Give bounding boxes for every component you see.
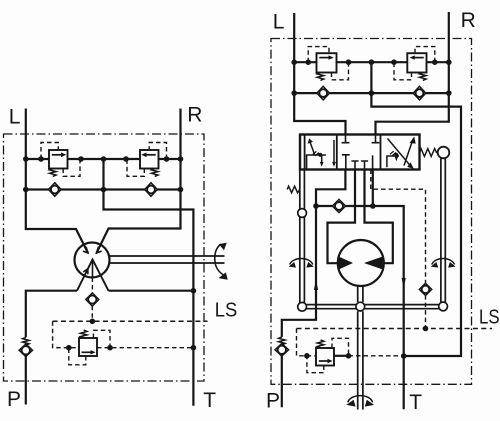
bottom relief valve arrow — [319, 360, 328, 362]
junction dots right unit — [291, 59, 451, 358]
steering metering unit circle — [75, 243, 110, 278]
P line check valve — [19, 344, 32, 357]
relief valve V1 pilot lines — [41, 143, 80, 177]
rotation arrow left column — [290, 259, 313, 265]
relief valve V4 spring — [420, 73, 427, 81]
bottom relief output to T junction — [334, 355, 349, 357]
relief valve V2 arrow — [146, 154, 156, 156]
LS dashed drop to bottom relief — [297, 329, 317, 356]
motor shaft double line — [358, 286, 363, 409]
control valve body — [300, 135, 420, 170]
mid check valve C5 — [332, 199, 345, 212]
P line check valve right unit — [275, 344, 289, 357]
bottom relief valve spring — [317, 340, 324, 348]
wire R port to valve — [376, 12, 449, 135]
wire relief gallery line — [26, 158, 181, 160]
pilot dashed check to LS line — [91, 306, 93, 322]
steering rotation arrow arc — [215, 244, 226, 276]
metering unit rotor V line — [77, 260, 109, 291]
valve right section internals — [387, 156, 399, 167]
wire L port to steering circle top-left — [26, 109, 88, 254]
relief valve V1 body — [49, 150, 68, 169]
LS pilot dashed to LS line — [425, 295, 427, 328]
relief valve V1 arrow — [52, 154, 62, 156]
wire L port to valve — [294, 13, 345, 135]
valve top closed ports — [342, 135, 380, 143]
wire tank gallery and crossover to T — [371, 62, 461, 356]
valve bottom closed ports — [342, 155, 373, 170]
check valve C3 — [317, 86, 330, 100]
steering shaft double line — [110, 256, 225, 263]
enclosure box left unit (dash-dot border) — [4, 134, 205, 381]
check valve C1 — [49, 183, 62, 197]
pilot relief valve pilot lines — [69, 330, 110, 365]
metering unit internal vertical — [92, 260, 94, 278]
relief valve V3 body — [317, 53, 337, 72]
wire check branch P to T with T port — [316, 206, 404, 409]
relief valve V2 spring — [152, 169, 159, 177]
linkage right column — [441, 158, 445, 302]
metering unit chevron bottom-left — [83, 269, 88, 275]
wire tank gallery down to T port — [104, 159, 194, 406]
relief valve V4 arrow — [414, 57, 424, 59]
bottom relief valve pilot lines — [307, 338, 349, 372]
rotation arrows bottom shaft steering wheel — [348, 396, 373, 403]
svg-text:T: T — [203, 389, 216, 412]
svg-text:L: L — [9, 105, 21, 128]
LS line dashed right unit — [297, 328, 493, 330]
linkage joint circle right — [439, 302, 448, 311]
P line spring right unit — [279, 337, 286, 345]
relief valve V2 body — [140, 150, 159, 169]
pilot relief valve spring — [81, 330, 88, 338]
check valve C4 — [413, 86, 426, 100]
valve left section internals — [307, 155, 326, 170]
wire valve port B to motor right — [365, 170, 393, 264]
metering unit chevron top-right — [97, 247, 102, 253]
control valve section dividers — [305, 135, 381, 170]
svg-text:L: L — [273, 10, 285, 33]
LS line dashed left unit — [53, 320, 208, 322]
relief valve V3 spring — [317, 73, 324, 81]
pilot dashed circle to LS check — [91, 278, 93, 295]
wire valve T return to check branch — [372, 170, 374, 207]
steering rotation arrow heads — [219, 243, 227, 251]
motor circle — [338, 240, 384, 286]
wire R port to steering circle top-right — [97, 109, 181, 254]
pilot relief valve body left unit — [79, 338, 97, 356]
metering unit chevron top-left — [83, 247, 88, 253]
relief valve V3 arrow — [319, 57, 329, 59]
LS pilot check valve below circle — [86, 293, 99, 306]
svg-text:LS: LS — [479, 305, 500, 328]
svg-text:R: R — [187, 103, 202, 126]
junction dots left unit — [23, 156, 196, 350]
centering spring left linkage — [287, 186, 300, 193]
rotation arrow right column — [432, 259, 455, 265]
enclosure box right unit (dash-dot border) — [271, 39, 472, 385]
LS check valve C6 — [419, 283, 431, 295]
svg-text:R: R — [461, 9, 476, 32]
linkage joint circle left upper — [298, 209, 307, 218]
relief valve V4 body — [407, 53, 426, 72]
wire check gallery line right unit — [294, 92, 449, 94]
wire P branch riser and elbow to valve — [282, 170, 346, 408]
svg-text:P: P — [7, 388, 21, 411]
flow arrow down on T branch — [402, 278, 406, 289]
relief valve V2 pilot lines — [127, 143, 167, 177]
check valve C2 — [145, 183, 158, 197]
linkage joint circle mid — [356, 302, 365, 311]
motor triangle right — [364, 256, 383, 269]
wire circle bottom-right to T line — [109, 290, 194, 292]
wire valve port A to motor left — [328, 170, 356, 264]
bottom relief valve body right unit — [316, 348, 334, 366]
pilot relief valve arrow — [82, 351, 92, 353]
wire circle bottom-left to P port — [26, 291, 77, 405]
linkage horizontal double line — [307, 305, 439, 309]
mechanical linkage left column — [300, 170, 305, 303]
LS pilot dashed from valve — [371, 170, 426, 285]
wire relief gallery line right unit — [294, 61, 449, 63]
flow arrow up on P riser — [314, 279, 318, 290]
svg-text:P: P — [266, 389, 280, 412]
motor triangle left — [338, 256, 353, 269]
LS dashed drop to pilot relief — [53, 321, 79, 347]
relief valve V1 spring — [50, 169, 57, 177]
P line spring — [23, 337, 30, 345]
relief valve V4 pilot lines — [394, 47, 435, 80]
relief valve V3 pilot lines — [308, 47, 348, 80]
valve actuator circle — [438, 147, 450, 159]
valve return spring right end — [420, 149, 437, 157]
linkage joint circle left — [298, 302, 307, 311]
pilot relief output dashed to T line — [97, 347, 193, 349]
wire check gallery line — [26, 188, 181, 190]
svg-text:T: T — [409, 391, 422, 414]
svg-text:LS: LS — [215, 298, 238, 321]
